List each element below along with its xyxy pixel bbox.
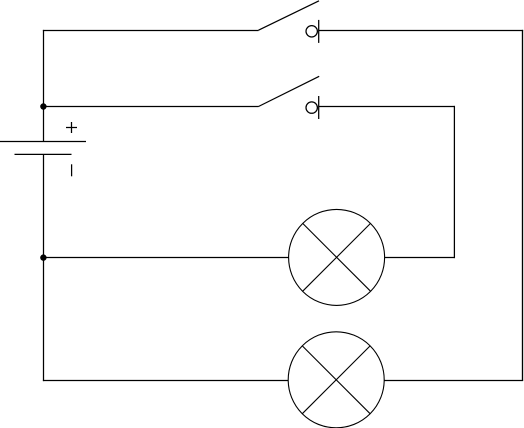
wire inner vertical — [453, 106, 455, 258]
wire lamp1 right lead — [385, 257, 455, 259]
wire right vertical — [522, 30, 524, 381]
switch S1 blade — [259, 1, 320, 30]
switch S1 contact tick — [318, 20, 320, 43]
wire bottom rail right segment — [384, 380, 523, 382]
wire second rail left segment — [44, 106, 259, 108]
battery B1 positive plate — [0, 141, 86, 143]
lamp L1 — [289, 209, 385, 305]
lamp L2 envelope circle — [288, 332, 384, 428]
lamp L1 cross stroke 1 — [303, 223, 371, 291]
switch S2 — [259, 76, 320, 119]
battery B1 plus label — [66, 122, 77, 133]
lamp L1 cross stroke 2 — [303, 223, 371, 291]
switch S2 blade — [259, 76, 320, 106]
wire left vertical lower (battery - plate to bottom rail) — [43, 154, 45, 381]
lamp L2 — [288, 332, 384, 428]
switch S2 contact circle — [306, 102, 317, 113]
battery B1 — [0, 122, 86, 176]
wire left vertical upper (top rail to battery + plate) — [43, 30, 45, 142]
battery B1 negative plate — [15, 153, 72, 155]
wire bottom rail left segment — [43, 380, 288, 382]
switch S2 contact tick — [318, 96, 320, 119]
wire top rail right segment — [319, 30, 523, 32]
lamp L1 envelope circle — [289, 209, 385, 305]
battery B1 minus label — [71, 164, 73, 176]
wire lamp1 left lead — [44, 257, 289, 259]
lamp L2 cross stroke 1 — [302, 346, 370, 414]
wire second rail right segment — [319, 106, 455, 108]
switch S1 — [259, 1, 320, 43]
node B junction dot — [40, 254, 46, 260]
switch S1 contact circle — [306, 26, 317, 37]
node A junction dot — [40, 103, 46, 109]
wire top rail left segment — [43, 30, 259, 32]
lamp L2 cross stroke 2 — [302, 346, 370, 414]
